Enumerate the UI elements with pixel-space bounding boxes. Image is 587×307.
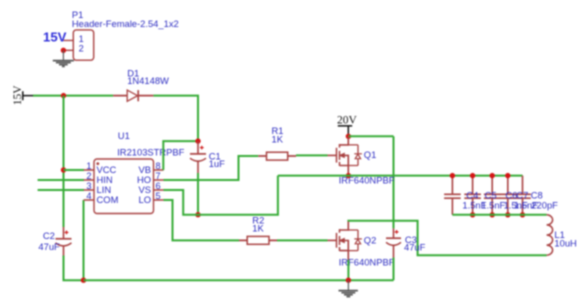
node junction C1 bottom on VS run bbox=[195, 212, 200, 217]
wire 15V top rail left segment bbox=[33, 95, 113, 97]
wire COM drop to ground rail bbox=[83, 200, 85, 280]
ground under P1 pin 2 bbox=[53, 50, 74, 66]
wire VB pin8 up to C1 top bbox=[163, 141, 198, 170]
svg-text:220pF: 220pF bbox=[531, 199, 558, 210]
diode D1 bbox=[113, 68, 169, 102]
svg-text:8: 8 bbox=[156, 161, 161, 171]
wire LIN input stub bbox=[38, 189, 84, 191]
ground under Q2 bbox=[339, 280, 358, 296]
node junction C7 bottom bbox=[505, 212, 510, 217]
capacitor C1 bbox=[190, 141, 225, 173]
wire C3 column down bbox=[393, 136, 395, 228]
svg-text:IR2103STRPBF: IR2103STRPBF bbox=[117, 146, 184, 157]
wire HO pin7 to R1 bbox=[164, 156, 259, 180]
wire VCC rail to pin 1 bbox=[64, 169, 85, 171]
svg-text:LO: LO bbox=[138, 194, 151, 205]
svg-text:Header-Female-2.54_1x2: Header-Female-2.54_1x2 bbox=[72, 18, 179, 29]
svg-text:15V: 15V bbox=[43, 29, 67, 44]
label C8 bbox=[531, 190, 558, 211]
wire C2 bottom to ground rail bbox=[64, 256, 84, 281]
node junction C4 top bbox=[450, 173, 455, 178]
svg-text:15V: 15V bbox=[12, 85, 24, 106]
capacitor C7 bbox=[500, 176, 517, 215]
op-amp U1 IR2103 gate driver body bbox=[84, 130, 185, 213]
svg-text:7: 7 bbox=[156, 171, 161, 181]
wire Q1 drain to C3 column bbox=[348, 135, 393, 137]
svg-text:4: 4 bbox=[86, 191, 91, 201]
svg-text:2: 2 bbox=[79, 44, 84, 54]
wire ground rail bbox=[84, 279, 394, 281]
node junction COM/ground rail bbox=[81, 278, 86, 283]
wire R1 to Q1 gate bbox=[296, 154, 328, 156]
node junction VCC rail to pin1 bbox=[61, 167, 66, 172]
port 20V power bbox=[337, 114, 358, 136]
wire LO pin5 to R2 bbox=[164, 200, 240, 240]
label C5 bbox=[481, 190, 505, 211]
resistor R1 bbox=[258, 125, 296, 160]
svg-text:1K: 1K bbox=[272, 133, 284, 144]
node junction C1 top bbox=[195, 138, 200, 143]
svg-text:20V: 20V bbox=[337, 114, 358, 126]
capacitor C8 bbox=[514, 176, 531, 215]
node junction at P1 pin 2 bbox=[61, 48, 66, 53]
transistor Q2 IRF640 bbox=[328, 222, 362, 260]
wire R2 to Q2 gate bbox=[277, 239, 328, 241]
svg-text:10uH: 10uH bbox=[554, 238, 576, 249]
svg-text:47uF: 47uF bbox=[38, 241, 60, 252]
svg-text:Q1: Q1 bbox=[364, 149, 377, 160]
resistor R2 bbox=[239, 215, 277, 245]
node junction C5 bottom bbox=[470, 212, 475, 217]
svg-text:6: 6 bbox=[156, 181, 161, 191]
wire Q2 source to ground rail bbox=[347, 260, 349, 280]
transistor Q1 IRF640 bbox=[328, 136, 362, 175]
label C7 bbox=[514, 190, 538, 211]
svg-text:1: 1 bbox=[86, 161, 91, 171]
wire phase rail bbox=[278, 175, 523, 177]
node junction Q2 source ground bbox=[346, 278, 351, 283]
wire Q2 drain to tank bbox=[348, 221, 546, 255]
node junction C8 bottom bbox=[520, 212, 525, 217]
wire VS pin6 run to phase node bbox=[164, 176, 278, 215]
node junction C6 bottom bbox=[490, 212, 495, 217]
svg-text:2: 2 bbox=[86, 171, 91, 181]
inductor L1 bbox=[547, 215, 577, 255]
svg-text:Q2: Q2 bbox=[364, 234, 377, 245]
wire C1 bottom to VS net bbox=[197, 173, 199, 215]
svg-text:1N4148W: 1N4148W bbox=[127, 75, 169, 86]
capacitor C4 bbox=[444, 176, 461, 215]
svg-text:1: 1 bbox=[79, 34, 84, 44]
wire 15V rail right of diode to corner and down to C1 bbox=[153, 96, 198, 142]
svg-text:47uF: 47uF bbox=[404, 241, 426, 252]
svg-text:3: 3 bbox=[86, 181, 91, 191]
wire HIN input stub bbox=[38, 179, 84, 181]
label C4 bbox=[462, 190, 486, 211]
svg-text:U1: U1 bbox=[118, 130, 130, 141]
svg-text:5: 5 bbox=[156, 191, 161, 201]
capacitor C3 bbox=[386, 228, 426, 257]
svg-text:1K: 1K bbox=[252, 222, 264, 233]
node junction C7 top bbox=[505, 173, 510, 178]
connector P1 bbox=[63, 9, 178, 60]
port 15V (left, bar style) bbox=[12, 85, 33, 106]
wire tank bottom rail bbox=[452, 214, 546, 216]
node junction on 15V rail bbox=[61, 93, 66, 98]
wire VCC rail from 15V rail down to C2 bbox=[63, 96, 65, 227]
svg-text:IRF640NPBF: IRF640NPBF bbox=[339, 256, 395, 267]
node junction Q1 drain bbox=[346, 134, 351, 139]
node junction C6 top bbox=[490, 173, 495, 178]
svg-text:C2: C2 bbox=[43, 230, 55, 241]
wire C3 bottom to ground rail bbox=[393, 258, 395, 281]
node junction C5 top bbox=[470, 173, 475, 178]
svg-text:COM: COM bbox=[97, 194, 119, 205]
capacitor C5 bbox=[464, 176, 481, 215]
capacitor C2 bbox=[38, 227, 71, 256]
capacitor C6 bbox=[484, 176, 501, 215]
node junction Q1 source / phase bbox=[346, 173, 351, 178]
svg-text:1.5nF: 1.5nF bbox=[481, 199, 505, 210]
label C6 bbox=[504, 190, 528, 211]
svg-text:1uF: 1uF bbox=[209, 158, 225, 169]
